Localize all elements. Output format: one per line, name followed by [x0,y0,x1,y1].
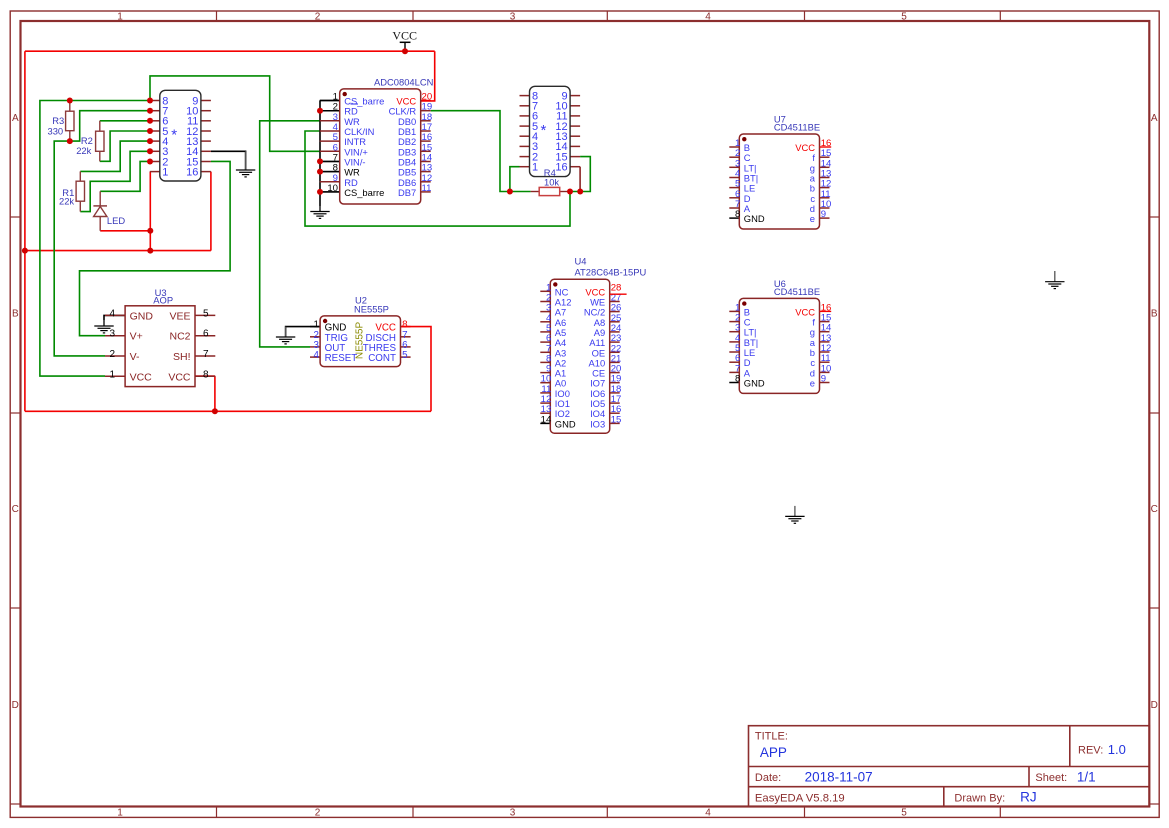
svg-text:4: 4 [313,350,319,361]
ground sym free (right) [1045,271,1064,289]
svg-text:D: D [12,700,19,711]
wire to U2 pin8 VCC [401,327,432,412]
svg-text:APP: APP [760,745,787,760]
svg-text:DB7: DB7 [398,187,416,198]
IC U6 CD4511BE [729,310,739,312]
wire VCC drop to ADC pin20 [421,51,435,101]
wire ADC WR to U2 OUT [260,121,320,347]
wire SW1 pin8 to U3 pin1 [40,101,150,377]
U4 pin28 red stub underline [610,293,627,295]
junction left red [22,248,28,254]
svg-text:RJ: RJ [1020,789,1037,804]
border tick left [10,216,20,218]
svg-text:*: * [541,122,547,139]
U6 pin16 red stub extension [820,310,832,312]
IC ADC0804LCN [320,100,340,102]
svg-text:1: 1 [117,12,123,23]
svg-text:CD4511BE: CD4511BE [774,286,820,297]
junction pin1 net [147,248,153,254]
border tick right [1149,607,1159,609]
wire U3 pin8 stub link [195,375,215,377]
junction R4 right a [567,189,573,195]
IC U7 CD4511BE [729,146,739,148]
svg-text:REV:: REV: [1078,745,1103,757]
border tick bottom [412,807,414,818]
svg-text:TITLE:: TITLE: [755,731,788,743]
border tick top [999,11,1001,21]
svg-text:7: 7 [203,349,209,360]
border tick right [1149,803,1159,805]
junction R4 left [507,189,513,195]
svg-text:8: 8 [735,209,740,220]
svg-text:NC2: NC2 [169,331,190,343]
svg-text:4: 4 [705,12,711,23]
svg-text:4: 4 [705,808,711,819]
wire from SW1 pin1 down [149,172,151,251]
border tick top [216,11,218,21]
svg-text:4: 4 [109,308,115,319]
ground sym free (center) [785,506,804,523]
svg-text:6: 6 [203,329,209,340]
wire ADC pin2 link [320,110,340,112]
wire SW1 pin5 to R2 bottom [100,131,150,161]
svg-text:Sheet:: Sheet: [1035,772,1067,784]
wire ADC pin7 link [320,160,340,162]
junction VCC [402,48,408,54]
RD overline [351,103,359,105]
svg-text:B: B [12,309,19,320]
svg-text:A: A [12,113,19,124]
svg-text:Drawn By:: Drawn By: [954,792,1005,804]
border tick left [10,607,20,609]
wire SW1 pin15 to U3 pin3 [80,161,231,335]
junction SW1 pin8 [147,98,153,104]
border tick top [412,11,414,21]
svg-text:ADC0804LCN: ADC0804LCN [374,77,433,88]
svg-text:*: * [171,127,177,144]
ground sym below ADC [310,206,329,218]
svg-text:10k: 10k [544,176,559,187]
svg-text:8: 8 [203,369,209,380]
svg-text:C: C [1151,504,1158,515]
ground sym at U2 pin1 [276,327,295,344]
svg-text:V+: V+ [130,331,143,343]
svg-text:V-: V- [130,351,140,363]
svg-text:14: 14 [541,414,552,425]
border tick bottom [999,807,1001,818]
svg-text:1/1: 1/1 [1077,769,1096,784]
border tick right [1149,412,1159,414]
wire from SW1 pin16 down [210,172,212,251]
svg-text:CS_barre: CS_barre [344,187,384,198]
border tick bottom [804,807,806,818]
svg-text:5: 5 [402,350,408,361]
svg-text:8: 8 [735,374,740,385]
junction ADC gnd bus [317,169,323,175]
wire SW2 pin16 down (dark red) [579,167,581,192]
junction LED net [147,228,153,234]
junction SW1 pin6 [147,118,153,124]
wire SW1 pin3 to R1 bottom [80,151,150,211]
svg-text:1: 1 [532,162,538,174]
svg-text:2: 2 [315,12,321,23]
svg-text:CD4511BE: CD4511BE [774,122,820,133]
wire ADC CLK/R to R4 left [431,111,531,192]
svg-text:5: 5 [901,12,907,23]
wire R4 left to SW2 pin1 [510,167,520,192]
svg-text:VCC: VCC [168,371,191,383]
svg-text:9: 9 [821,209,826,220]
junction ADC gnd bus [317,108,323,114]
svg-text:1: 1 [117,808,123,819]
wire SW1 pin6 to R2 top [100,120,150,122]
svg-text:1.0: 1.0 [1108,742,1126,757]
svg-text:22k: 22k [59,196,74,207]
svg-text:2: 2 [315,808,321,819]
wire LED cathode to pin1 net [100,230,150,232]
resistor R3 330 [69,101,71,112]
svg-text:NE555P: NE555P [354,322,365,360]
junction SW1 pin2 [147,159,153,165]
wire R4 right to SW2 pin15 [568,157,590,192]
junction ADC gnd bus [317,158,323,164]
title block frame [749,726,1150,807]
junction U3 VCC net [212,408,218,414]
wire VCC bottom horizontal [25,410,431,412]
svg-text:C: C [12,504,19,515]
DIP switch SW1 [150,100,160,102]
resistor R2 22k [99,121,101,131]
border tick top [804,11,806,21]
wire ADC pin10 link [320,191,340,193]
wire ADC pin8 link [320,171,340,173]
svg-text:3: 3 [510,808,516,819]
U7 pin16 red stub extension [820,146,832,148]
svg-text:5: 5 [203,308,209,319]
svg-text:GND: GND [744,378,765,389]
svg-text:16: 16 [555,162,567,174]
IC U2 NE555P [310,326,320,328]
svg-text:VEE: VEE [169,310,190,322]
svg-text:e: e [810,213,815,224]
svg-text:B: B [1151,309,1158,320]
svg-text:GND: GND [130,310,154,322]
svg-text:1: 1 [162,166,168,178]
svg-text:AOP: AOP [153,295,173,306]
svg-text:3: 3 [109,329,115,340]
wire SW1 pin14 to ground [211,151,246,170]
svg-text:2: 2 [109,349,115,360]
svg-text:22k: 22k [76,145,91,156]
svg-text:LED: LED [107,215,125,226]
VCC symbol bar [400,41,411,43]
wire VCC left vertical [24,51,26,411]
svg-text:15: 15 [611,414,622,425]
svg-text:Date:: Date: [755,772,781,784]
border tick left [10,412,20,414]
wire R3 bottom to U3 pin2 [54,141,105,356]
svg-text:VCC: VCC [392,28,417,42]
junction SW1 pin4 [147,138,153,144]
border tick left [10,803,20,805]
svg-text:2018-11-07: 2018-11-07 [805,769,873,784]
svg-text:A: A [1151,113,1158,124]
svg-text:3: 3 [510,12,516,23]
border tick bottom [606,807,608,818]
wire SW1 pin7 to R3 bottom [70,111,150,141]
wire U2 pin1 to ground [286,327,321,337]
svg-text:11: 11 [422,183,432,194]
svg-text:VCC: VCC [130,371,153,383]
svg-text:D: D [1151,700,1158,711]
resistor R1 22k [79,171,81,181]
svg-text:e: e [810,378,815,389]
IC U4 AT28C64B-15PU [540,290,550,292]
junction SW1 pin5 [147,128,153,134]
VCC symbol stem [404,42,406,51]
wire SW1 pin2 to LED anode [100,161,150,191]
wire U3 pin4 to ground [104,315,125,326]
ground sym at SW1 pin14 [236,151,255,177]
svg-text:CONT: CONT [368,353,396,364]
wire VCC top horizontal [25,50,435,52]
junction SW1 pin7 [147,108,153,114]
svg-text:1: 1 [109,369,115,380]
ground sym at U3 pin4 [94,320,113,333]
svg-text:EasyEDA V5.8.19: EasyEDA V5.8.19 [755,792,845,804]
svg-text:IO3: IO3 [590,418,605,429]
junction R3 top [67,98,73,104]
svg-text:RESET: RESET [325,353,358,364]
svg-text:330: 330 [48,125,64,136]
wire ADC CLK/IN to R4 right [305,131,570,226]
svg-text:10: 10 [327,183,338,194]
svg-text:U4: U4 [575,256,587,267]
junction SW1 pin3 [147,148,153,154]
border tick bottom [216,807,218,818]
IC U3 AOP [105,314,125,316]
wire SW1 pin4 to R1 top [80,141,150,171]
svg-text:GND: GND [744,213,765,224]
wire ADC ground bus vertical [319,101,321,212]
border tick right [1149,216,1159,218]
border tick top [606,11,608,21]
junction R4 right b [577,189,583,195]
svg-text:5: 5 [901,808,907,819]
junction R3 bottom [67,138,73,144]
svg-text:NE555P: NE555P [354,303,389,314]
resistor R4 10k [531,191,540,193]
wire SW1 pin8 to ADC VIN/+ [150,76,320,151]
diode LED [99,191,101,206]
svg-text:16: 16 [186,166,198,178]
wire mid horizontal red [25,250,211,252]
svg-text:AT28C64B-15PU: AT28C64B-15PU [575,267,647,278]
svg-text:9: 9 [821,374,826,385]
svg-text:SH!: SH! [173,351,191,363]
wire from U3 pin8 down [214,376,216,411]
svg-text:GND: GND [555,418,576,429]
wire ADC pin1 link [320,100,340,102]
junction ADC gnd bus [317,189,323,195]
DIP switch SW2 [520,95,530,97]
